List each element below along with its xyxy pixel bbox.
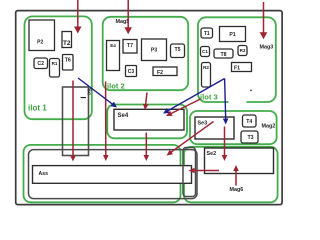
blue arrow ilot1 to Se4 bbox=[78, 78, 117, 108]
blue arrow ilot3 to Se4 bbox=[163, 79, 225, 114]
outer factory wall border bbox=[16, 11, 282, 205]
svg-text:Mag2: Mag2 bbox=[262, 124, 276, 130]
blue arrow ilot3 to Se3 bbox=[223, 79, 229, 125]
svg-text:T2: T2 bbox=[63, 40, 71, 47]
svg-text:ilot 2: ilot 2 bbox=[107, 82, 125, 91]
machine R1 bbox=[50, 59, 60, 78]
red arrow into ilot 1 bbox=[74, 0, 82, 34]
machine P3 bbox=[142, 39, 167, 61]
svg-text:C3: C3 bbox=[128, 69, 135, 75]
red arrow into Mag5 bbox=[124, 0, 132, 34]
machine F1 bbox=[232, 63, 252, 72]
svg-text:T6: T6 bbox=[65, 58, 71, 64]
svg-text:C2: C2 bbox=[37, 61, 44, 67]
station Se4 bbox=[114, 109, 184, 130]
machine C3 bbox=[126, 66, 137, 77]
red arrow into Se2 bbox=[222, 127, 228, 162]
gap in ilot 3 bottom edge bbox=[229, 100, 247, 105]
svg-text:C1: C1 bbox=[202, 49, 208, 54]
svg-text:Se3: Se3 bbox=[198, 121, 208, 127]
machine C2 bbox=[34, 58, 48, 69]
svg-text:E4: E4 bbox=[110, 43, 116, 48]
zone ilot 3 / Mag3 green boundary bbox=[198, 17, 276, 102]
red arrow Mag6 up into Se2 bbox=[233, 165, 239, 186]
zone Se4 green boundary bbox=[107, 105, 187, 139]
svg-text:P3: P3 bbox=[151, 48, 157, 54]
svg-text:R2: R2 bbox=[203, 65, 209, 70]
svg-text:R1: R1 bbox=[52, 61, 58, 66]
machine T5 bbox=[171, 44, 185, 58]
zone ilot 1 green boundary bbox=[25, 16, 92, 119]
red arrow ilot3 to Se4 bbox=[166, 99, 201, 116]
red arrow ilot2 to band bbox=[103, 82, 109, 162]
machine T1 bbox=[201, 28, 213, 38]
red arrow Se3 to band bbox=[167, 122, 214, 156]
zone assembly band green boundary bbox=[24, 145, 181, 202]
red arrow into Mag3 bbox=[260, 2, 268, 39]
station Se3 bbox=[195, 117, 234, 139]
svg-text:Se4: Se4 bbox=[118, 113, 129, 119]
machine T7 bbox=[123, 40, 137, 54]
svg-text:T7: T7 bbox=[127, 43, 133, 49]
machine C1 bbox=[201, 47, 210, 57]
svg-text:P2: P2 bbox=[37, 39, 43, 45]
svg-text:P1: P1 bbox=[229, 32, 235, 38]
svg-text:Mag5: Mag5 bbox=[116, 19, 130, 25]
machine P2 bbox=[29, 20, 55, 51]
svg-text:ilot 1: ilot 1 bbox=[28, 104, 47, 113]
svg-text:ilot 3: ilot 3 bbox=[200, 93, 218, 102]
svg-text:Mag3: Mag3 bbox=[260, 45, 274, 51]
svg-text:Mag6: Mag6 bbox=[230, 187, 244, 193]
svg-text:R3: R3 bbox=[240, 48, 246, 53]
machine T3 bbox=[241, 131, 258, 143]
svg-text:T1: T1 bbox=[204, 31, 210, 37]
zone Mag6 green boundary bbox=[184, 147, 278, 203]
svg-text:T8: T8 bbox=[220, 52, 226, 58]
machine T6 bbox=[63, 55, 74, 71]
small gray staging box right of band bbox=[183, 148, 196, 197]
machine T8 bbox=[214, 49, 233, 58]
svg-text:T3: T3 bbox=[247, 135, 253, 141]
assembly area outer gray rect bbox=[29, 150, 198, 199]
svg-text:Se2: Se2 bbox=[207, 151, 217, 157]
machine F2 bbox=[153, 67, 177, 76]
svg-text:F1: F1 bbox=[234, 66, 240, 72]
stray dot bbox=[250, 90, 252, 92]
svg-text:Ass: Ass bbox=[39, 171, 49, 177]
svg-text:T4: T4 bbox=[246, 119, 252, 125]
svg-text:Sc: Sc bbox=[85, 88, 91, 96]
red arrow Se4 to band bbox=[144, 133, 150, 162]
machine P1 bbox=[220, 27, 246, 42]
red arrow ilot2 to Se4 bbox=[143, 93, 149, 111]
machine R2 bbox=[202, 63, 211, 88]
zone Mag2 green boundary bbox=[190, 111, 277, 144]
red arrow Se2 to band bbox=[189, 168, 220, 174]
machine T2 bbox=[62, 32, 72, 48]
machine R3 bbox=[238, 46, 247, 56]
svg-text:T5: T5 bbox=[174, 47, 180, 53]
machine T4 bbox=[243, 115, 257, 127]
red arrow ilot1 to band bbox=[70, 81, 76, 162]
conveyor strip Ass bbox=[33, 166, 192, 184]
stock SC tall gray box bbox=[63, 87, 92, 156]
zone ilot 2 / Mag5 green boundary bbox=[103, 17, 189, 90]
station Se2 bbox=[205, 148, 274, 174]
machine E4 bbox=[107, 41, 120, 71]
svg-text:F2: F2 bbox=[157, 70, 163, 76]
